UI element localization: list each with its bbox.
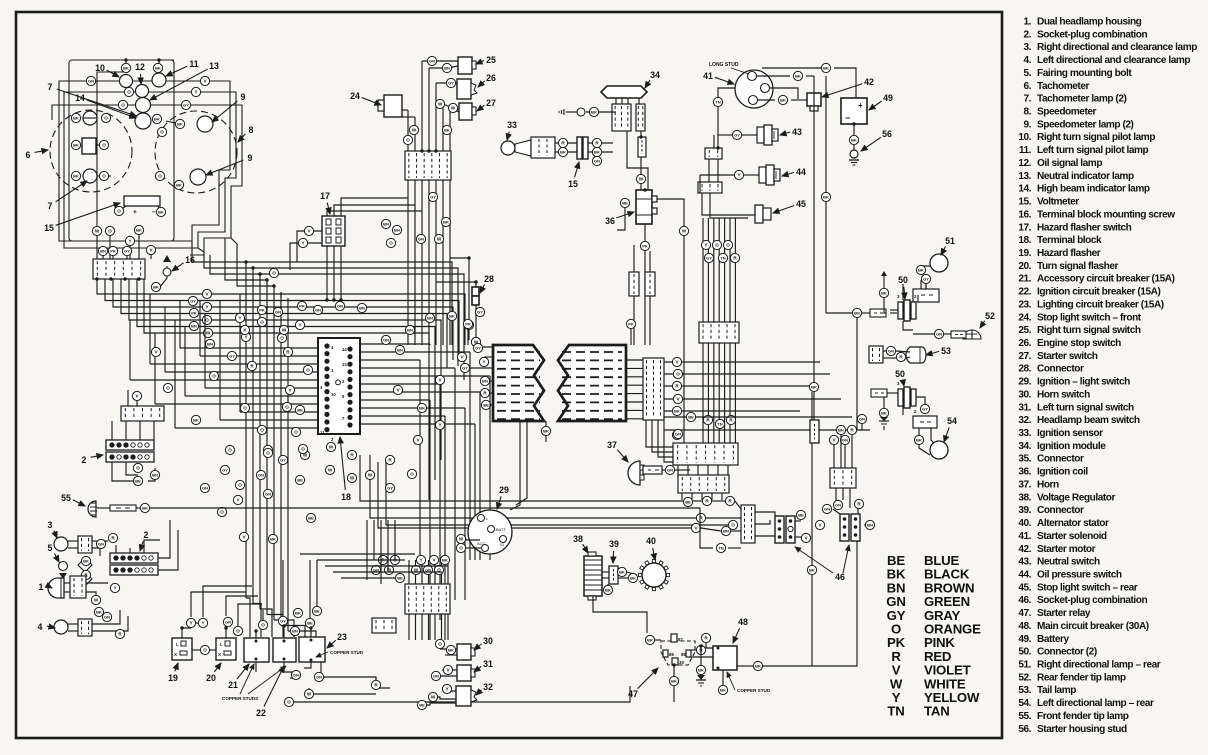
wires 15 to 34 (588, 142, 613, 144)
svg-text:Stop light switch – front: Stop light switch – front (1037, 312, 1142, 323)
svg-text:Accessory circuit breaker (15A: Accessory circuit breaker (15A) (1037, 274, 1175, 285)
wire marker BN 50b3 (836, 425, 845, 434)
svg-text:42: 42 (864, 77, 874, 87)
svg-text:14: 14 (75, 93, 85, 103)
svg-text:40: 40 (646, 536, 656, 546)
svg-text:O: O (260, 428, 264, 433)
svg-text:O: O (272, 271, 276, 276)
wire marker PK hl (463, 319, 472, 328)
svg-text:38.: 38. (1018, 492, 1031, 503)
svg-text:BK: BK (881, 291, 887, 296)
starter solenoid 41 (735, 70, 773, 108)
wire marker O s2 (133, 463, 142, 472)
svg-text:31: 31 (483, 659, 493, 669)
wire marker BK tm2 (441, 217, 450, 226)
svg-text:W: W (328, 468, 333, 473)
connector 46 right top (830, 468, 856, 488)
svg-text:Y: Y (419, 558, 422, 563)
svg-text:W: W (451, 106, 456, 111)
svg-text:24.: 24. (1018, 312, 1031, 323)
border frame (16, 12, 1002, 738)
wire marker O 46f (728, 520, 737, 529)
label 26 (478, 73, 496, 87)
svg-text:Right directional lamp – rear: Right directional lamp – rear (1037, 660, 1161, 671)
wires 17 down (326, 246, 328, 300)
svg-text:Ignition coil: Ignition coil (1037, 467, 1088, 478)
label 44 (782, 167, 806, 177)
svg-text:31.: 31. (1018, 402, 1031, 413)
label 13 (150, 61, 219, 100)
svg-text:BE: BE (307, 621, 313, 626)
svg-text:Y: Y (201, 621, 204, 626)
wire marker Y r19b (198, 618, 207, 627)
label 42 (822, 77, 874, 97)
wire marker R 15 (592, 138, 601, 147)
label 41 (703, 71, 734, 84)
wire marker R 33 (558, 138, 567, 147)
label 2 lower (140, 530, 149, 551)
wire marker BK 9l (174, 180, 183, 189)
svg-text:44.: 44. (1018, 570, 1031, 581)
svg-text:Dual headlamp housing: Dual headlamp housing (1037, 17, 1142, 28)
svg-text:BK: BK (444, 128, 450, 133)
label 36 (605, 212, 634, 226)
svg-text:O: O (238, 483, 242, 488)
wire marker R 4 (115, 629, 124, 638)
svg-text:30: 30 (483, 636, 493, 646)
diamond plug a (78, 558, 92, 572)
wire marker GY 43 (732, 130, 741, 139)
svg-text:Connector: Connector (1037, 364, 1084, 375)
svg-text:15: 15 (44, 223, 54, 233)
svg-text:O: O (166, 386, 170, 391)
svg-text:17.: 17. (1018, 222, 1031, 233)
svg-text:GY: GY (923, 277, 929, 282)
arrows 46 (795, 547, 833, 573)
wire marker R 46a (702, 496, 711, 505)
ignition light switch 29 (468, 510, 512, 554)
svg-text:BE: BE (419, 703, 425, 708)
svg-text:29: 29 (499, 485, 509, 495)
wire marker BK d (81, 556, 90, 565)
svg-text:54.: 54. (1018, 698, 1031, 709)
label 24 (350, 91, 381, 105)
label 7 upper (48, 82, 137, 116)
wire marker BK 55 (140, 503, 149, 512)
svg-text:+: + (858, 101, 863, 110)
svg-text:BK: BK (155, 66, 161, 71)
svg-text:O: O (236, 629, 240, 634)
speedometer lamp 9 lower (190, 169, 206, 185)
wire marker R 46c (696, 513, 705, 522)
svg-text:GY: GY (734, 133, 740, 138)
svg-text:8.: 8. (1023, 107, 1031, 118)
svg-text:O: O (306, 368, 310, 373)
svg-text:BN: BN (867, 523, 873, 528)
svg-text:O: O (127, 90, 131, 95)
label 11 (166, 59, 199, 76)
svg-text:BK: BK (270, 537, 276, 542)
svg-text:9: 9 (241, 92, 246, 102)
wires 29 (456, 539, 480, 540)
label 46 (835, 572, 845, 582)
svg-text:Starter motor: Starter motor (1037, 544, 1096, 555)
wire 36 W right (657, 199, 684, 226)
svg-text:Front fender tip lamp: Front fender tip lamp (1037, 711, 1129, 722)
svg-text:W: W (438, 102, 443, 107)
svg-text:3.: 3. (1023, 42, 1031, 53)
svg-text:X: X (218, 652, 221, 657)
wire marker R 46 (854, 499, 863, 508)
svg-text:54: 54 (947, 416, 957, 426)
wire marker W r36 (679, 226, 688, 235)
svg-text:35.: 35. (1018, 454, 1031, 465)
svg-text:GN: GN (202, 486, 208, 491)
wire marker O 7u (101, 113, 110, 122)
svg-text:Starter housing stud: Starter housing stud (1037, 724, 1127, 735)
wire marker V s2 (132, 391, 141, 400)
svg-text:19: 19 (168, 673, 178, 683)
svg-text:BK: BK (619, 570, 625, 575)
svg-text:GN: GN (258, 473, 264, 478)
harness cable right piece (558, 345, 626, 421)
svg-text:BK: BK (560, 150, 566, 155)
connector 54 (913, 416, 937, 428)
svg-text:BK: BK (918, 268, 924, 273)
wire marker O voltmeter (114, 206, 123, 215)
ground symbol module (559, 109, 572, 115)
svg-text:Stop light switch – rear: Stop light switch – rear (1037, 582, 1138, 593)
wires 31 (442, 669, 457, 671)
accessory breaker 21 (244, 638, 269, 662)
label 23 (327, 632, 347, 648)
wire marker O r20 (233, 626, 242, 635)
svg-text:Starter solenoid: Starter solenoid (1037, 531, 1107, 542)
wire marker BE 46 (796, 510, 805, 519)
svg-text:GY: GY (183, 103, 189, 108)
svg-text:O: O (104, 116, 108, 121)
wire marker BN bus (189, 321, 198, 330)
svg-text:BE: BE (483, 403, 489, 408)
harness cable left piece (493, 345, 544, 421)
wire marker R 46b (725, 496, 734, 505)
wire marker O hr (673, 369, 682, 378)
svg-text:GY: GY (462, 366, 468, 371)
svg-text:BK: BK (73, 174, 79, 179)
svg-text:BK: BK (811, 385, 817, 390)
svg-text:7: 7 (48, 82, 53, 92)
label 45 (773, 199, 806, 213)
label 1 (39, 582, 52, 592)
wire marker V 46 (801, 533, 810, 542)
svg-text:Y: Y (189, 621, 192, 626)
wire marker TN sol (713, 97, 722, 106)
svg-text:Y: Y (205, 305, 208, 310)
svg-text:Voltmeter: Voltmeter (1037, 197, 1079, 208)
label 6 (26, 150, 48, 160)
label 28 (480, 274, 494, 293)
svg-text:51.: 51. (1018, 660, 1031, 671)
wire marker PK 36 (640, 241, 649, 250)
wire marker W 24 (409, 125, 418, 134)
bottom long horizontals (317, 559, 405, 561)
svg-text:BN: BN (427, 316, 433, 321)
svg-text:GN: GN (337, 304, 343, 309)
wires tb bottom risers (408, 560, 410, 584)
svg-text:BE: BE (685, 500, 691, 505)
svg-text:O: O (676, 372, 680, 377)
lamp 10 right turn pilot (120, 75, 133, 88)
svg-text:Left directional lamp – rear: Left directional lamp – rear (1037, 698, 1154, 709)
connector 1 (70, 576, 86, 598)
wire marker O 13 (118, 100, 127, 109)
wire marker BK 30 (446, 645, 455, 654)
svg-text:Horn switch: Horn switch (1037, 389, 1090, 400)
wire marker BE tb (395, 573, 404, 582)
wire marker Y 17 (298, 238, 307, 247)
right vertical bundle wires (702, 218, 704, 322)
svg-text:BE: BE (314, 609, 320, 614)
wires into 46-left (360, 455, 683, 501)
headlamp beam switch 32 (456, 686, 471, 706)
wires 50 top (884, 298, 886, 313)
tachometer lamp 7 upper (83, 111, 97, 125)
svg-text:25: 25 (486, 55, 496, 65)
svg-text:O: O (260, 320, 264, 325)
harness connector right (643, 358, 664, 420)
wire marker BK top2 (153, 63, 162, 72)
wire marker V cluster (200, 76, 209, 85)
svg-text:Speedometer lamp (2): Speedometer lamp (2) (1037, 119, 1134, 130)
ground 47 (696, 675, 706, 686)
svg-text:Y: Y (301, 241, 304, 246)
ground 50b (879, 417, 889, 424)
svg-text:Socket-plug combination: Socket-plug combination (1037, 29, 1148, 40)
svg-text:Rear fender tip lamp: Rear fender tip lamp (1037, 672, 1126, 683)
svg-text:19.: 19. (1018, 248, 1031, 259)
svg-text:PK: PK (465, 322, 471, 327)
wire marker O tb2 (434, 565, 443, 574)
horn 37 (628, 461, 640, 485)
wire marker BK 38 (603, 585, 612, 594)
wire marker BE 36 (620, 198, 629, 207)
wire marker BK gnd47 (696, 665, 705, 674)
module gnd wire (572, 111, 578, 113)
svg-text:BK: BK (851, 138, 857, 143)
wire marker BE r23a (305, 618, 314, 627)
svg-text:Tail lamp: Tail lamp (1037, 685, 1076, 696)
svg-text:GN: GN (675, 432, 681, 437)
wire marker BK lv (809, 382, 818, 391)
wire PK hr (630, 329, 632, 345)
wire marker BN 25 (442, 63, 451, 72)
svg-text:GN: GN (418, 237, 424, 242)
svg-text:23: 23 (337, 632, 347, 642)
svg-text:27: 27 (486, 98, 496, 108)
wire marker GN cluster (86, 76, 95, 85)
wire marker W 29 (456, 534, 465, 543)
svg-text:BE: BE (798, 513, 804, 518)
svg-text:Tachometer: Tachometer (1037, 81, 1089, 92)
svg-text:53: 53 (941, 346, 951, 356)
wire marker GN 53 (886, 346, 895, 355)
wire marker W 1 (91, 595, 100, 604)
wire marker BK tm (442, 125, 451, 134)
svg-text:GN: GN (293, 673, 299, 678)
label 20 (206, 663, 221, 683)
label 30 (474, 636, 493, 650)
label 19 (168, 663, 178, 683)
svg-text:17: 17 (320, 191, 330, 201)
svg-text:O: O (301, 447, 305, 452)
svg-text:Y: Y (704, 243, 707, 248)
wire marker BE hl (481, 400, 490, 409)
svg-text:16: 16 (185, 255, 195, 265)
connector 50small (870, 309, 886, 317)
svg-text:BK: BK (823, 66, 829, 71)
svg-text:BN: BN (207, 342, 213, 347)
svg-text:12: 12 (135, 62, 145, 72)
svg-text:49.: 49. (1018, 634, 1031, 645)
svg-text:41.: 41. (1018, 531, 1031, 542)
tail lamp 53 (906, 347, 926, 363)
svg-text:BK: BK (73, 116, 79, 121)
svg-text:GY: GY (190, 299, 196, 304)
wire marker BK 33 (558, 147, 567, 156)
svg-text:BK: BK (780, 98, 786, 103)
connector 35 small (638, 137, 646, 157)
connector rb top (699, 322, 739, 343)
fairing bolt 5 (59, 562, 68, 571)
wire marker R rl (371, 680, 380, 689)
svg-text:45.: 45. (1018, 582, 1031, 593)
top-middle bundle wires (407, 110, 409, 151)
wires 28 (450, 258, 469, 340)
wires rear risers (833, 445, 835, 468)
svg-text:Battery: Battery (1037, 634, 1069, 645)
wires 53 (883, 350, 886, 352)
label 39 (609, 539, 619, 563)
svg-text:26.: 26. (1018, 338, 1031, 349)
svg-text:O: O (243, 406, 247, 411)
svg-text:Terminal block mounting screw: Terminal block mounting screw (1037, 209, 1175, 220)
svg-text:O: O (228, 448, 232, 453)
wire marker GY 51 (921, 274, 930, 283)
wire marker Y 44 (734, 170, 743, 179)
wire marker BN 46 (865, 520, 874, 529)
svg-text:50: 50 (898, 275, 908, 285)
svg-text:Fairing mounting bolt: Fairing mounting bolt (1037, 68, 1132, 79)
voltmeter 15 body (124, 196, 160, 206)
wire marker BE r23b (312, 606, 321, 615)
svg-text:BK: BK (73, 143, 79, 148)
wire marker PK bus (189, 308, 198, 317)
svg-text:GN: GN (275, 310, 281, 315)
svg-text:BK: BK (295, 611, 301, 616)
label 40 (646, 536, 656, 560)
svg-text:GY: GY (922, 407, 928, 412)
svg-text:TN: TN (715, 100, 720, 105)
connector PK inline (629, 272, 639, 296)
wire marker BK 7u (71, 113, 80, 122)
svg-text:BN: BN (854, 311, 860, 316)
svg-text:O: O (280, 336, 284, 341)
oil pressure switch 44 (759, 167, 766, 183)
svg-text:Y: Y (244, 335, 247, 340)
svg-text:2: 2 (82, 455, 87, 465)
svg-text:28: 28 (484, 274, 494, 284)
label 14 (75, 93, 136, 118)
wire marker GN tb (371, 565, 380, 574)
svg-text:GY: GY (222, 468, 228, 473)
connector 51 (913, 289, 939, 302)
svg-text:BK: BK (916, 438, 922, 443)
label 47 (628, 668, 658, 699)
wire marker BE hr (686, 412, 695, 421)
wires 4 (68, 623, 78, 625)
svg-text:GN: GN (88, 79, 94, 84)
svg-text:BN: BN (444, 66, 450, 71)
starter housing stud 56 (850, 150, 858, 158)
svg-text:6: 6 (26, 150, 31, 160)
svg-text:W: W (282, 328, 287, 333)
svg-text:Headlamp beam switch: Headlamp beam switch (1037, 415, 1140, 426)
svg-text:47.: 47. (1018, 608, 1031, 619)
svg-text:High beam indicator lamp: High beam indicator lamp (1037, 184, 1150, 195)
svg-text:TN: TN (717, 422, 722, 427)
svg-text:GN: GN (315, 308, 321, 313)
svg-text:46: 46 (835, 572, 845, 582)
wire marker BK 42 (821, 63, 830, 72)
wire marker R 50b (847, 425, 856, 434)
svg-text:BN: BN (152, 473, 158, 478)
wire marker BK 50 (879, 288, 888, 297)
svg-text:BK: BK (795, 74, 801, 79)
wire marker BK 45 (821, 192, 830, 201)
label 9 lower (206, 153, 253, 175)
tachometer dashed circle 6 (50, 110, 132, 192)
svg-text:GY: GY (430, 195, 436, 200)
wire marker GY rb (704, 253, 713, 262)
wire marker W rl (304, 689, 313, 698)
wire 48 stud (722, 670, 724, 685)
svg-text:Turn signal flasher: Turn signal flasher (1037, 261, 1119, 272)
wire marker W 36 (636, 174, 645, 183)
lamp 11 left turn pilot (152, 73, 166, 87)
wire marker GY tm2 (428, 192, 437, 201)
tachometer lamp 7 lower (83, 169, 97, 183)
connector 3 (78, 536, 92, 553)
wire marker W bottom (92, 226, 101, 235)
socket-plug 46 left (775, 516, 784, 543)
svg-text:BK: BK (647, 638, 653, 643)
label 38 (573, 534, 588, 553)
svg-text:9.: 9. (1023, 119, 1031, 130)
voltage regulator 38 (584, 556, 602, 596)
label 27 (477, 98, 496, 111)
wire marker BK tb (440, 555, 449, 564)
svg-text:39: 39 (609, 539, 619, 549)
svg-text:GY: GY (280, 619, 286, 624)
label 54 (944, 416, 957, 442)
svg-text:GY: GY (229, 354, 235, 359)
wires 38-40 (602, 571, 609, 573)
svg-text:BK: BK (823, 195, 829, 200)
svg-text:30.: 30. (1018, 389, 1031, 400)
svg-text:Speedometer: Speedometer (1037, 107, 1097, 118)
svg-text:11.: 11. (1019, 145, 1032, 156)
wire marker GN 15 (592, 156, 601, 165)
